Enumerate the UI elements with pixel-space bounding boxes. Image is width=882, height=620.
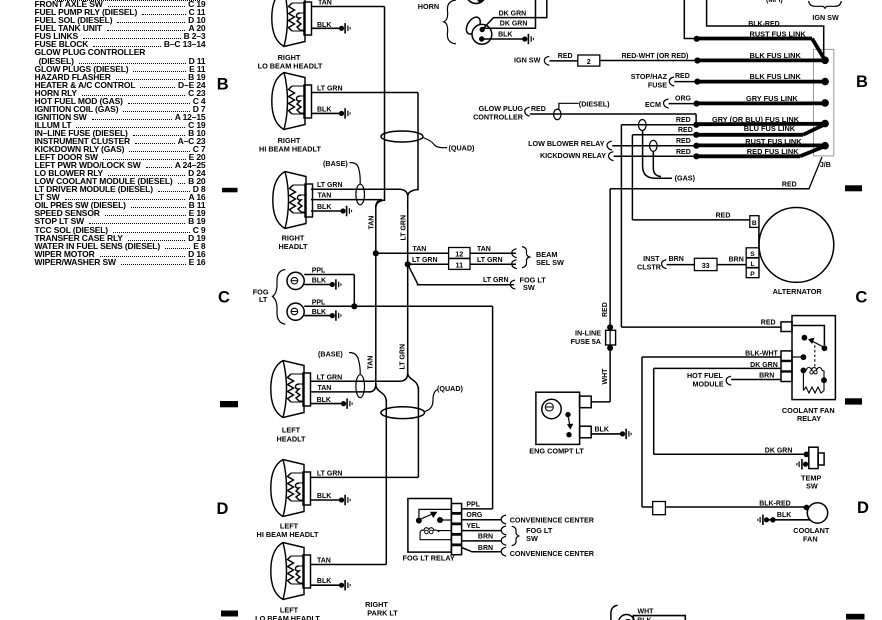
svg-text:BRN: BRN [478,545,493,552]
svg-text:D: D [857,499,869,517]
svg-text:IGN SW: IGN SW [812,13,839,22]
svg-text:BLK FUS LINK: BLK FUS LINK [750,72,802,81]
svg-text:D: D [217,500,229,518]
svg-text:FOG LT RELAY: FOG LT RELAY [403,553,455,562]
svg-text:TAN: TAN [318,385,332,392]
svg-text:33: 33 [702,261,710,270]
svg-text:P: P [750,271,755,278]
svg-text:RED: RED [782,181,797,188]
svg-text:LT GRN: LT GRN [412,257,438,264]
svg-text:BLK-WHT: BLK-WHT [745,351,778,358]
svg-text:RED: RED [761,319,776,326]
svg-text:KICKDOWN RELAY: KICKDOWN RELAY [540,151,606,160]
svg-text:LO BEAM HEADLT: LO BEAM HEADLT [258,62,323,71]
svg-text:TAN: TAN [318,193,332,200]
svg-text:LOW BLOWER RELAY: LOW BLOWER RELAY [528,139,605,148]
svg-text:WHT: WHT [638,608,655,615]
svg-text:CONTROLLER: CONTROLLER [473,112,524,121]
svg-text:RED: RED [676,117,691,124]
svg-text:RED-WHT (OR RED): RED-WHT (OR RED) [622,53,689,60]
svg-text:BLK: BLK [312,278,326,285]
svg-text:DK GRN: DK GRN [765,447,793,454]
svg-text:(MFI): (MFI) [766,0,783,4]
svg-text:RED: RED [531,106,546,113]
svg-text:BLK: BLK [595,427,609,434]
svg-text:GRY (OR BLU) FUS LINK: GRY (OR BLU) FUS LINK [712,115,800,124]
svg-text:LT GRN: LT GRN [317,470,343,477]
svg-text:RIGHT: RIGHT [365,600,388,609]
svg-text:PPL: PPL [312,268,326,275]
svg-text:LT GRN: LT GRN [317,182,343,189]
svg-text:BLK: BLK [317,578,331,585]
svg-text:SW: SW [523,283,535,292]
svg-text:12: 12 [455,249,463,258]
svg-text:BLK: BLK [498,32,512,39]
svg-text:C: C [218,289,230,307]
svg-text:B: B [856,73,868,91]
svg-text:B: B [217,75,229,93]
svg-text:C: C [855,289,867,307]
svg-text:ENG COMPT LT: ENG COMPT LT [529,447,584,456]
svg-text:CONVENIENCE CENTER: CONVENIENCE CENTER [510,549,595,558]
svg-text:BRN: BRN [669,256,684,263]
svg-text:HI BEAM HEADLT: HI BEAM HEADLT [257,530,319,539]
svg-text:SW: SW [806,482,818,491]
svg-text:S: S [750,251,755,258]
svg-text:LT: LT [259,295,268,304]
svg-text:LT GRN: LT GRN [400,344,407,370]
svg-text:LT GRN: LT GRN [477,257,503,264]
svg-text:WHT: WHT [602,368,609,385]
svg-text:LT GRN: LT GRN [483,277,509,284]
svg-text:BLK FUS LINK: BLK FUS LINK [750,51,802,60]
svg-text:CONVENIENCE CENTER: CONVENIENCE CENTER [510,515,595,524]
svg-text:HORN: HORN [418,2,440,11]
svg-text:(QUAD): (QUAD) [437,384,464,393]
svg-text:ECM: ECM [645,100,661,109]
svg-text:BLK-RED: BLK-RED [759,500,791,507]
svg-text:2: 2 [587,57,591,66]
svg-text:SEL SW: SEL SW [536,258,564,267]
svg-text:DK GRN: DK GRN [500,21,528,28]
svg-text:RED: RED [675,73,690,80]
svg-text:HI BEAM HEADLT: HI BEAM HEADLT [259,144,321,153]
svg-text:RED: RED [558,53,573,60]
svg-text:(QUAD): (QUAD) [449,144,476,153]
svg-text:J/B: J/B [820,162,831,169]
svg-text:TAN: TAN [317,557,331,564]
svg-text:BLU FUS LINK: BLU FUS LINK [744,124,796,133]
svg-text:PPL: PPL [312,299,326,306]
svg-text:DK GRN: DK GRN [499,11,527,18]
svg-text:(DIESEL): (DIESEL) [579,100,610,109]
svg-text:TAN: TAN [477,246,491,253]
svg-text:GRY FUS LINK: GRY FUS LINK [746,94,798,103]
svg-text:BLK: BLK [317,22,331,29]
svg-text:BLK: BLK [317,204,331,211]
svg-text:BLK-RED: BLK-RED [748,21,780,28]
svg-text:LT GRN: LT GRN [317,374,343,381]
svg-text:MODULE: MODULE [693,380,724,389]
svg-text:BLK: BLK [317,493,331,500]
svg-text:RED: RED [678,127,693,134]
svg-text:(BASE): (BASE) [323,159,348,168]
svg-text:RED: RED [602,302,609,317]
svg-text:BRN: BRN [478,534,493,541]
svg-text:BRN: BRN [759,372,774,379]
svg-text:HEADLT: HEADLT [276,434,306,443]
svg-text:LO BEAM HEADLT: LO BEAM HEADLT [255,614,320,620]
svg-text:PPL: PPL [466,501,480,508]
svg-text:BLK: BLK [312,309,326,316]
svg-text:HEADLT: HEADLT [278,242,308,251]
svg-text:(GAS): (GAS) [675,173,696,182]
svg-text:BLK: BLK [317,397,331,404]
svg-text:FUSE: FUSE [648,81,667,90]
svg-text:LT GRN: LT GRN [317,86,343,93]
svg-text:RED: RED [716,212,731,219]
svg-text:ORG: ORG [675,96,692,103]
svg-text:(BASE): (BASE) [318,350,343,359]
svg-text:RUST FUS LINK: RUST FUS LINK [750,30,807,39]
svg-text:B: B [752,220,757,227]
svg-text:ALTERNATOR: ALTERNATOR [773,287,823,296]
svg-text:BRN: BRN [729,256,744,263]
svg-text:FAN: FAN [803,534,818,543]
svg-text:FUSE 5A: FUSE 5A [571,337,601,346]
svg-text:BLK: BLK [777,512,791,519]
svg-text:LT GRN: LT GRN [401,215,408,241]
svg-text:TAN: TAN [369,216,376,230]
svg-text:RUST FUS LINK: RUST FUS LINK [745,137,802,146]
svg-text:RELAY: RELAY [797,414,821,423]
svg-text:RED FUS LINK: RED FUS LINK [747,147,799,156]
svg-text:RED: RED [676,138,691,145]
svg-text:DK GRN: DK GRN [750,362,778,369]
svg-text:CLSTR: CLSTR [637,262,662,271]
svg-text:11: 11 [455,260,463,269]
svg-text:PARK LT: PARK LT [367,609,398,618]
svg-text:IGN SW: IGN SW [514,55,541,64]
svg-text:TAN: TAN [318,0,332,7]
svg-text:BLK: BLK [317,107,331,114]
svg-text:TAN: TAN [368,356,375,370]
svg-text:ORG: ORG [466,512,483,519]
svg-text:SW: SW [526,534,538,543]
svg-text:L: L [750,261,754,268]
svg-text:RED: RED [676,149,691,156]
svg-text:TAN: TAN [413,246,427,253]
svg-text:YEL: YEL [466,523,480,530]
